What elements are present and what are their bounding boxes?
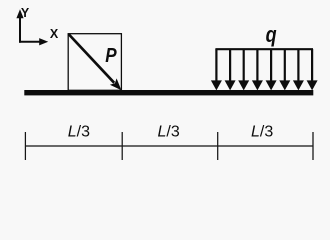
load arrow 3	[243, 49, 245, 82]
beam	[24, 90, 313, 95]
Y axis arrowhead	[16, 9, 23, 18]
distributed load arrows	[216, 49, 312, 82]
load arrowhead 7	[293, 80, 304, 90]
dimension tick 4	[312, 132, 314, 160]
svg-text:L/3: L/3	[68, 123, 90, 140]
load arrowhead 6	[279, 80, 290, 90]
load arrow 1	[215, 49, 217, 82]
force P arrowhead	[110, 78, 122, 90]
svg-text:Y: Y	[21, 6, 30, 20]
load arrowhead 1	[211, 80, 222, 90]
box for force P	[68, 34, 121, 91]
load arrow 6	[284, 49, 286, 82]
svg-text:X: X	[50, 27, 59, 41]
svg-text:L/3: L/3	[157, 123, 179, 140]
svg-text:q: q	[266, 22, 277, 47]
dimension line	[25, 145, 313, 147]
dimension tick 3	[217, 132, 219, 160]
load arrowhead 5	[266, 80, 277, 90]
force P arrow (diagonal)	[69, 34, 115, 83]
load arrow 2	[229, 49, 231, 82]
load arrowhead 4	[252, 80, 263, 90]
distributed load q top line	[215, 48, 313, 50]
dimension tick 2	[121, 132, 123, 160]
Y axis line	[19, 17, 21, 43]
X axis line	[19, 41, 42, 43]
X axis arrowhead	[39, 38, 48, 45]
load arrow 8	[311, 49, 313, 82]
load arrowhead 8	[307, 80, 318, 90]
svg-text:L/3: L/3	[251, 123, 273, 140]
load arrow 7	[297, 49, 299, 82]
load arrowhead 2	[225, 80, 236, 90]
load arrow 4	[256, 49, 258, 82]
svg-text:P: P	[105, 44, 117, 67]
dimension tick 1	[24, 132, 26, 160]
load arrow 5	[270, 49, 272, 82]
load arrowhead 3	[238, 80, 249, 90]
